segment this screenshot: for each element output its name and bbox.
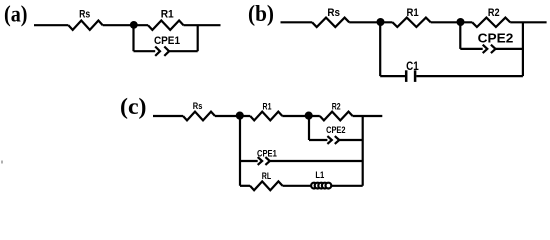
wire (a) bottom lead from CPE1 [169,50,198,52]
wire (c) left vertical [239,116,241,186]
resistor Rs (a) [68,21,102,30]
CPE2 (c) chevron 1 [327,136,331,144]
wire (a) left lead [34,24,68,26]
capacitor C1 (b) plate left [405,70,408,82]
wire (b) C1 branch vertical [379,22,381,76]
speck artifact left edge [1,161,3,164]
wire (c) right lead [353,115,383,117]
CPE1 (a) chevron 2 [164,47,169,56]
wire (b) C1 lead out [416,75,523,77]
svg-text:R1: R1 [263,102,272,112]
wire (b) CPE2 branch vertical [459,22,461,49]
wire (a) bottom lead to CPE1 [134,50,156,52]
resistor R1 (b) [393,18,431,27]
svg-text:CPE1: CPE1 [257,149,277,159]
CPE1 (a) chevron 1 [155,47,160,56]
wire (a) Rs to R1 [103,24,148,26]
wire (b) R1 to R2 [431,21,473,23]
svg-text:CPE1: CPE1 [154,35,180,47]
svg-text:Rs: Rs [327,7,340,19]
svg-text:R1: R1 [161,8,174,20]
CPE1 (c) chevron 1 [258,157,262,165]
capacitor C1 (b) plate right [414,70,417,82]
wire (b) CPE2 lead in [460,48,482,50]
wire (c) R1 to R2 [282,115,320,117]
wire (b) left lead [281,21,313,23]
wire (c) CPE1 lead out [270,160,363,162]
svg-text:(a): (a) [4,2,28,27]
svg-text:L1: L1 [315,170,324,180]
svg-text:C1: C1 [406,59,419,73]
wire (c) CPE2 lead out [339,139,363,141]
svg-text:R1: R1 [407,7,419,19]
svg-text:Rs: Rs [193,101,203,111]
wire (c) RL to L1 [283,185,312,187]
wire (c) left lead [153,115,183,117]
wire (c) bottom lead to RL [240,185,250,187]
wire (c) CPE2 branch vertical [308,116,310,140]
node (c) junction 1 [236,112,244,120]
wire (b) CPE2 lead out [496,48,523,50]
CPE2 (b) chevron 2 [491,45,496,53]
resistor R1 (c) [250,112,282,121]
svg-text:(b): (b) [248,1,274,26]
node (a) junction dot [130,21,138,29]
svg-text:CPE2: CPE2 [326,125,345,135]
svg-text:R2: R2 [332,102,341,112]
wire (b) Rs to R1 [349,21,392,23]
resistor R2 (b) [472,18,510,27]
node (c) junction 2 [305,112,313,120]
resistor R1 (a) [148,21,184,30]
svg-text:RL: RL [262,171,272,181]
wire (c) CPE1 lead in [240,160,258,162]
wire (a) right lead [184,24,221,26]
wire (b) C1 lead in [380,75,405,77]
resistor R2 (c) [320,112,353,121]
wire (a) right vertical [197,25,199,51]
wire (c) CPE2 lead in [309,139,327,141]
wire (c) Rs to R1 [215,115,250,117]
wire (c) right vertical [362,116,364,186]
svg-text:(c): (c) [120,94,147,119]
resistor Rs (c) [183,112,215,121]
wire (b) right vertical [522,22,524,76]
CPE2 (c) chevron 2 [335,136,339,144]
node (b) junction 1 [377,18,385,26]
svg-text:Rs: Rs [79,8,90,20]
svg-text:R2: R2 [488,7,500,19]
wire (c) L1 lead out [332,185,363,187]
svg-text:CPE2: CPE2 [478,31,514,46]
resistor Rs (b) [312,18,349,27]
wire (b) right lead [510,21,546,23]
inductor L1 (c) [311,183,331,189]
CPE1 (c) chevron 2 [265,157,269,165]
CPE2 (b) chevron 1 [483,45,488,53]
node (b) junction 2 [457,18,465,26]
resistor RL (c) [250,181,283,190]
wire (a) left vertical [132,25,134,51]
